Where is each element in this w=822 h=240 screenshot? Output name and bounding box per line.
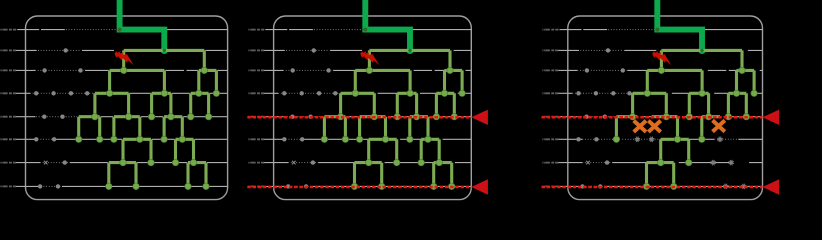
label q6 panel 1: [0, 138, 16, 140]
gate bar row4 [190.7,208.6] panel 1: [191, 93, 209, 116]
gate bar row3 [198.8,216.4] panel 1: [199, 70, 217, 93]
label q5 panel 2: [248, 116, 264, 118]
ghost dot q4 panel 3: [627, 91, 631, 95]
gate bar row4 [151.6,170.9] panel 2: [397, 93, 416, 116]
label q3 panel 1: [0, 69, 16, 71]
node row6 x182.3 panel 1: [179, 136, 185, 142]
wire q7 panel 3: [555, 162, 762, 164]
ghost dot q8 panel 2: [304, 184, 308, 188]
node row8 x136 panel 3: [671, 183, 677, 189]
feed end bulge panel 2: [406, 47, 413, 54]
ghost dot q4 panel 1: [34, 91, 38, 95]
node row5 x151.6 panel 3: [686, 114, 692, 120]
label q8 panel 1: [0, 185, 16, 187]
node row6 x139.8 panel 3: [674, 136, 680, 142]
ghost dot q4 panel 2: [317, 91, 321, 95]
node row6 x113.9 panel 1: [111, 136, 117, 142]
feed end bulge panel 1: [161, 47, 168, 54]
ghost dot q8 panel 1: [38, 184, 42, 188]
node row5 x94.9 panel 1: [92, 114, 98, 120]
node row8 x136 panel 1: [133, 183, 139, 189]
ghost dot q5 panel 2: [290, 115, 294, 119]
node row6 x113.9 panel 2: [356, 136, 362, 142]
node row6 x139.8 panel 1: [137, 136, 143, 142]
wire q3 panel 3: [555, 69, 762, 71]
gate bar row5 [78.7,99.7] panel 3: [616, 117, 637, 140]
node row4 x216.4 panel 1: [213, 90, 219, 96]
ghost dot q6 panel 2: [300, 137, 304, 141]
node row8 x206 panel 2: [449, 183, 455, 189]
node row6 x78.7 panel 2: [321, 136, 327, 142]
node row7 x123 panel 3: [658, 159, 664, 165]
gate bar row3 [198.8,216.4] panel 3: [737, 70, 755, 93]
ghost dot q4 panel 1: [51, 91, 55, 95]
label q7 panel 1: [0, 162, 16, 164]
feed node r2 panel 1: [163, 49, 166, 52]
node row5 x170.9 panel 2: [413, 114, 419, 120]
wire q8 panel 3: [555, 185, 762, 187]
error lightning bolt panel 2: [360, 51, 379, 65]
gate bar row7 [108.8,136] panel 3: [647, 163, 674, 187]
loss marker X3 panel 3: [714, 122, 723, 131]
gate bar row4 [190.7,208.6] panel 2: [436, 93, 454, 116]
gate bar row4 [94.9,128.6] panel 1: [95, 93, 129, 116]
node row4 x198.8 panel 2: [441, 90, 447, 96]
gate bar row6 [123,151] panel 1: [123, 139, 151, 162]
node row3 x123.7 panel 1: [121, 67, 127, 73]
ghost dot q6 panel 2: [282, 137, 286, 141]
node row7 x123 panel 2: [366, 159, 372, 165]
node row6 x99.7 panel 2: [342, 136, 348, 142]
ghost dot q6 panel 3: [594, 137, 598, 141]
wire q1 panel 1: [17, 29, 227, 31]
wire q4 panel 2: [261, 92, 471, 94]
ghost dot q4 panel 2: [282, 91, 286, 95]
barrier dashed row a panel 3: [542, 116, 763, 119]
wire q2 panel 2: [261, 49, 471, 51]
node row4 x216.4 panel 2: [459, 90, 465, 96]
ghost dot q6 panel 3: [576, 137, 580, 141]
node row5 x190.7 panel 2: [433, 114, 439, 120]
node row4 x164.4 panel 1: [161, 90, 167, 96]
ghost dot q3 panel 3: [621, 68, 625, 72]
gate bar row2 [123.7,204.3] panel 3: [661, 50, 742, 70]
node row7 x193.5 panel 2: [436, 159, 442, 165]
feed node r1 panel 3: [655, 28, 659, 32]
node row5 x128.6 panel 1: [125, 114, 131, 120]
gate bar row4 [94.9,128.6] panel 2: [341, 93, 375, 116]
label q5 panel 1: [0, 116, 16, 118]
label q2 panel 1: [0, 49, 16, 51]
node row6 x78.7 panel 1: [76, 136, 82, 142]
root feed line panel 3: [657, 0, 702, 50]
label q1 panel 3: [542, 29, 558, 31]
gate bar row3 [109.6,164.4] panel 2: [355, 70, 410, 93]
ghost dot q2 panel 1: [63, 48, 67, 52]
ghost dot q8 panel 3: [580, 184, 584, 188]
ghost cross q7 panel 1: [44, 161, 48, 165]
node row7 x175.5 panel 1: [172, 159, 178, 165]
node row3 x204.3 panel 1: [201, 67, 207, 73]
wire q8 panel 1: [13, 185, 228, 187]
ghost dot q5 panel 1: [42, 115, 46, 119]
ghost dot q3 panel 2: [291, 68, 295, 72]
node row7 x175.5 panel 2: [418, 159, 424, 165]
wire q5 panel 3: [555, 116, 762, 118]
readout triangle b panel 2: [471, 179, 488, 194]
node row4 x109.6 panel 2: [352, 90, 358, 96]
node row7 x123 panel 1: [120, 159, 126, 165]
gate bar row7 [188,206] panel 2: [434, 163, 452, 187]
node row7 x193.5 panel 1: [190, 159, 196, 165]
wire q5 panel 2: [261, 116, 471, 118]
ghost dot q5 panel 1: [60, 115, 64, 119]
ghost dot q4 panel 1: [69, 91, 73, 95]
barrier dashed row b panel 3: [542, 186, 763, 189]
root feed line panel 2: [365, 0, 410, 50]
ghost cross q7 panel 2: [292, 161, 296, 165]
lost node row7 x193.5 panel 3: [729, 160, 734, 165]
label q6 panel 2: [248, 138, 264, 140]
wire q1 panel 3: [560, 29, 763, 31]
node row8 x188 panel 1: [185, 183, 191, 189]
node row4 x164.4 panel 2: [407, 90, 413, 96]
gate bar row5 [78.7,99.7] panel 2: [324, 117, 345, 140]
feed end bulge panel 3: [698, 47, 705, 54]
node row5 x208.6 panel 2: [451, 114, 457, 120]
gate bar row5 [164.1,182.3] panel 1: [164, 117, 182, 140]
wire q2 panel 1: [13, 49, 228, 51]
lost node row7 x175.5 panel 3: [711, 160, 716, 165]
gate bar row6 [123,151] panel 2: [369, 139, 397, 162]
gate bar row2 [123.7,204.3] panel 1: [124, 50, 205, 70]
wire q8 panel 2: [261, 185, 471, 187]
gate bar row4 [190.7,208.6] panel 3: [728, 93, 746, 116]
node row6 x164.1 panel 1: [161, 136, 167, 142]
gate bar row4 [94.9,128.6] panel 3: [633, 93, 667, 116]
ghost dot q6 panel 1: [52, 137, 56, 141]
wire q7 panel 2: [261, 162, 471, 164]
node row4 x109.6 panel 1: [106, 90, 112, 96]
gate bar row5 [78.7,99.7] panel 1: [79, 117, 100, 140]
ghost dot q8 panel 1: [56, 184, 60, 188]
ghost cross q7 panel 3: [586, 161, 590, 165]
lost node row8 x206 panel 3: [741, 184, 746, 189]
ghost dot q2 panel 3: [606, 48, 610, 52]
ghost dot q7 panel 3: [605, 160, 609, 164]
node row4 x109.6 panel 3: [644, 90, 650, 96]
error lightning bolt panel 1: [115, 51, 134, 65]
node row4 x216.4 panel 3: [751, 90, 757, 96]
wire q4 panel 3: [555, 92, 762, 94]
ghost dot q4 panel 2: [300, 91, 304, 95]
ghost dot q4 panel 3: [611, 91, 615, 95]
ghost dot q3 panel 1: [78, 68, 82, 72]
label q1 panel 1: [0, 29, 16, 31]
gate bar row3 [109.6,164.4] panel 3: [647, 70, 702, 93]
gate bar row7 [108.8,136] panel 2: [355, 163, 382, 187]
gate bar row5 [113.9,139.8] panel 1: [114, 117, 140, 140]
node row5 x151.6 panel 2: [394, 114, 400, 120]
node row5 x94.9 panel 3: [629, 114, 635, 120]
node row8 x188 panel 2: [431, 183, 437, 189]
label q2 panel 2: [248, 49, 264, 51]
node row8 x108.8 panel 1: [106, 183, 112, 189]
feed node r2 panel 3: [700, 49, 703, 52]
panel 3 frame box: [568, 16, 763, 200]
node row8 x136 panel 2: [379, 183, 385, 189]
ghost dot q4 panel 2: [333, 91, 337, 95]
gate bar row4 [151.6,170.9] panel 1: [152, 93, 171, 116]
node row3 x123.7 panel 2: [366, 67, 372, 73]
gate bar row6 [175.5,193.5] panel 2: [421, 139, 439, 162]
node row8 x108.8 panel 2: [351, 183, 357, 189]
panel 1 frame box: [26, 16, 228, 200]
node row5 x151.6 panel 1: [148, 114, 154, 120]
lost node row8 x188 panel 3: [723, 184, 728, 189]
node row6 x164.1 panel 3: [699, 136, 705, 142]
node row5 x128.6 panel 3: [663, 114, 669, 120]
node row7 x151 panel 2: [394, 159, 400, 165]
ghost dot q5 panel 3: [584, 115, 588, 119]
wire q6 panel 1: [13, 138, 228, 140]
label q4 panel 2: [248, 92, 264, 94]
ghost dot q5 panel 3: [603, 115, 607, 119]
node row4 x164.4 panel 3: [699, 90, 705, 96]
ghost dot q8 panel 2: [286, 184, 290, 188]
node row5 x208.6 panel 3: [743, 114, 749, 120]
node row3 x123.7 panel 3: [658, 67, 664, 73]
node row4 x198.8 panel 3: [733, 90, 739, 96]
label q1 panel 2: [248, 29, 264, 31]
wire q5 panel 1: [13, 116, 228, 118]
gate bar row6 [175.5,193.5] panel 1: [176, 139, 194, 162]
wire q2 panel 3: [555, 49, 762, 51]
label q7 panel 3: [542, 162, 558, 164]
label q2 panel 3: [542, 49, 558, 51]
label q4 panel 3: [542, 92, 558, 94]
gate bar row6 [123,151] panel 3: [661, 139, 689, 162]
gate bar row3 [198.8,216.4] panel 2: [445, 70, 463, 93]
readout triangle a panel 3: [763, 110, 780, 125]
ghost dot q4 panel 3: [576, 91, 580, 95]
gate bar row3 [109.6,164.4] panel 1: [110, 70, 165, 93]
error lightning bolt panel 3: [652, 51, 671, 65]
barrier dashed row a panel 2: [247, 116, 471, 119]
readout triangle a panel 2: [471, 110, 488, 125]
gate bar row7 [108.8,136] panel 1: [109, 163, 136, 187]
wire q3 panel 2: [261, 69, 471, 71]
loss marker X2 panel 3: [650, 122, 659, 131]
ghost dot q2 panel 2: [312, 48, 316, 52]
node row5 x190.7 panel 1: [188, 114, 194, 120]
gate bar row5 [164.1,182.3] panel 3: [702, 117, 720, 140]
node row8 x108.8 panel 3: [643, 183, 649, 189]
wire q4 panel 1: [13, 92, 228, 94]
ghost dot q6 panel 1: [34, 137, 38, 141]
feed node r1 panel 1: [118, 28, 122, 32]
node row7 x151 panel 1: [148, 159, 154, 165]
wire q3 panel 1: [13, 69, 228, 71]
wire q6 panel 2: [261, 138, 471, 140]
node row4 x198.8 panel 1: [196, 90, 202, 96]
readout triangle b panel 3: [763, 179, 780, 194]
label q6 panel 3: [542, 138, 558, 140]
ghost dot q8 panel 3: [598, 184, 602, 188]
label q7 panel 2: [248, 162, 264, 164]
ghost dot q3 panel 2: [326, 68, 330, 72]
ghost dot q3 panel 1: [42, 68, 46, 72]
node row5 x170.9 panel 1: [168, 114, 174, 120]
node row6 x164.1 panel 2: [407, 136, 413, 142]
node row5 x128.6 panel 2: [371, 114, 377, 120]
node row6 x139.8 panel 2: [382, 136, 388, 142]
label q4 panel 1: [0, 92, 16, 94]
feed node r1 panel 2: [363, 28, 367, 32]
loss marker X1 panel 3: [635, 122, 644, 131]
gate bar row4 [151.6,170.9] panel 3: [689, 93, 708, 116]
node row3 x204.3 panel 2: [447, 67, 453, 73]
lost node row6 x113.9 panel 3: [649, 137, 654, 142]
label q8 panel 3: [542, 185, 558, 187]
ghost dot q7 panel 2: [311, 160, 315, 164]
node row3 x204.3 panel 3: [739, 67, 745, 73]
label q5 panel 3: [542, 116, 558, 118]
node row5 x94.9 panel 2: [337, 114, 343, 120]
wire q1 panel 2: [265, 29, 471, 31]
label q3 panel 2: [248, 69, 264, 71]
node row5 x208.6 panel 1: [205, 114, 211, 120]
gate bar row5 [164.1,182.3] panel 2: [410, 117, 428, 140]
gate bar row2 [123.7,204.3] panel 2: [369, 50, 450, 70]
ghost dot q5 panel 2: [308, 115, 312, 119]
node row5 x170.9 panel 3: [705, 114, 711, 120]
lost node row6 x99.7 panel 3: [635, 137, 640, 142]
node row6 x182.3 panel 2: [425, 136, 431, 142]
ghost dot q4 panel 3: [594, 91, 598, 95]
node row8 x206 panel 1: [203, 183, 209, 189]
node row6 x78.7 panel 3: [613, 136, 619, 142]
ghost dot q4 panel 1: [85, 91, 89, 95]
ghost dot q3 panel 3: [585, 68, 589, 72]
gate bar row7 [188,206] panel 1: [188, 163, 206, 187]
gate bar row5 [113.9,139.8] panel 3: [652, 117, 678, 140]
lost node row6 x182.3 panel 3: [717, 137, 722, 142]
ghost dot q7 panel 1: [63, 160, 67, 164]
wire q6 panel 3: [555, 138, 762, 140]
label q8 panel 2: [248, 185, 264, 187]
barrier dashed row b panel 2: [247, 186, 471, 189]
node row6 x99.7 panel 1: [97, 136, 103, 142]
panel 2 frame box: [274, 16, 472, 200]
feed node r2 panel 2: [408, 49, 411, 52]
wire q7 panel 1: [13, 162, 228, 164]
label q3 panel 3: [542, 69, 558, 71]
root feed line panel 1: [120, 0, 165, 50]
node row7 x151 panel 3: [686, 159, 692, 165]
gate bar row5 [113.9,139.8] panel 2: [360, 117, 386, 140]
node row5 x190.7 panel 3: [725, 114, 731, 120]
